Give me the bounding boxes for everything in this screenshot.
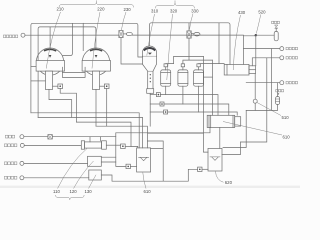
valve 620 in	[198, 167, 208, 171]
wire header B	[38, 27, 96, 118]
svg-text:610: 610	[283, 135, 291, 140]
wire port R1 line	[243, 48, 279, 50]
port L4	[20, 176, 89, 180]
wire dot down to vessel head	[255, 35, 257, 66]
wire tank1 nozzle drop	[49, 27, 51, 49]
wire tank2 feed drop	[82, 23, 84, 50]
label port R1	[286, 47, 298, 50]
svg-text:320: 320	[170, 9, 178, 14]
label port L4	[4, 176, 17, 179]
wire valve330 vertical	[188, 23, 190, 60]
valve cyclone V3	[150, 110, 237, 115]
label port R2	[286, 57, 298, 60]
port L2	[20, 143, 81, 147]
wire cylinder bottoms	[165, 86, 167, 94]
valve 110 out	[106, 144, 138, 149]
pump 130	[89, 170, 102, 180]
wire drop 246	[223, 110, 246, 147]
brace over 210-220	[59, 2, 133, 7]
wire leg1 down	[49, 89, 72, 117]
valve cyclone V2	[150, 102, 229, 115]
port R2	[280, 56, 284, 60]
wire valve1 down	[60, 89, 76, 123]
pump 110	[81, 141, 106, 149]
wire 120 out lines	[101, 157, 116, 162]
wire tank1 lower feed	[31, 80, 46, 82]
label trap B	[276, 90, 284, 96]
leader 110	[58, 148, 88, 189]
leader 210	[46, 12, 60, 69]
wire valve230 drop	[121, 38, 143, 65]
leader 610 right	[223, 122, 282, 136]
tank1 spray mark	[49, 55, 52, 58]
label feed inlet	[3, 35, 17, 38]
tank2 dark cap	[91, 49, 102, 50]
valve 230 with handle	[119, 31, 132, 38]
condenser cylinder 2	[178, 64, 188, 86]
label port L3	[4, 162, 17, 165]
wire right riser 266	[241, 58, 267, 142]
wire header A	[31, 23, 143, 113]
wire vessel head down	[254, 74, 256, 111]
condenser cylinder 3	[194, 64, 204, 86]
left bus wires	[31, 113, 139, 148]
leader 620	[216, 171, 224, 182]
leader lines	[46, 0, 282, 199]
brace over 310-330	[155, 3, 194, 8]
wire valve2 down	[106, 89, 108, 127]
wire tank1 vapor elbow	[63, 23, 73, 55]
leader 510	[257, 103, 281, 116]
port L1	[20, 135, 48, 139]
wire leg2 down	[95, 89, 97, 126]
valve cyclone V1	[150, 93, 218, 116]
wire vertical 212	[211, 60, 213, 115]
pump circle 510	[253, 99, 257, 103]
wire HX return	[116, 128, 210, 133]
underbrace 110-120	[56, 195, 85, 200]
wire port R2 line	[252, 58, 279, 66]
leader 120	[74, 161, 94, 189]
wire cylinder top headers	[166, 56, 204, 63]
wire tank620 right loop	[222, 142, 241, 154]
wire dot to trap A	[256, 34, 274, 36]
wire cyclone top line	[150, 23, 231, 65]
cyclone 310	[143, 46, 157, 93]
horizontal vessel 430	[224, 64, 255, 75]
wire long vertical 203	[203, 56, 208, 152]
svg-text:430: 430	[238, 10, 246, 15]
leader 310	[147, 14, 155, 56]
valve tank1 drain	[53, 84, 63, 89]
svg-text:110: 110	[53, 189, 60, 194]
pump 120	[88, 156, 102, 166]
wire port R3 line	[246, 82, 280, 84]
label port L2	[4, 144, 17, 147]
leader 610 bottom	[143, 173, 146, 189]
leader 520	[256, 15, 261, 34]
tank 620	[208, 148, 222, 171]
wire HX bottom to tank620	[219, 128, 221, 149]
wire tank1 rect feed	[31, 66, 36, 68]
wire return 110.4	[246, 105, 277, 111]
svg-text:130: 130	[85, 189, 93, 194]
svg-text:330: 330	[191, 9, 199, 14]
valve tank2 drain	[100, 84, 109, 89]
text blobs (CJK port labels rendered as glyph boxes)	[3, 21, 297, 179]
svg-text:210: 210	[57, 7, 65, 12]
steam trap A	[274, 25, 278, 41]
evaporator tank1 210	[36, 48, 64, 75]
port R1	[280, 47, 284, 51]
svg-text:310: 310	[151, 9, 159, 14]
valve L1	[48, 135, 116, 142]
wire mid link	[148, 132, 203, 134]
wire L-line to bottom bus	[147, 141, 163, 181]
svg-text:610: 610	[144, 189, 152, 194]
svg-text:510: 510	[282, 115, 290, 120]
port L3	[20, 161, 88, 165]
wire cyclone downcomer	[149, 93, 151, 126]
valve 610 in	[126, 164, 137, 168]
valve 330 with handle	[187, 31, 200, 38]
wire inter-tank transfer loop	[62, 67, 85, 77]
scan artifact band	[0, 186, 300, 188]
leader 320	[167, 14, 173, 80]
port feed inlet (left top)	[21, 33, 119, 37]
wire valve230 out	[132, 34, 243, 36]
heat exchanger 610r horizontal	[207, 115, 241, 127]
svg-text:620: 620	[225, 180, 233, 185]
steam trap B	[276, 83, 280, 105]
leader 330	[190, 14, 194, 30]
wire vessel top entry 2	[243, 36, 255, 65]
leader 230	[121, 12, 126, 30]
tank2 leg	[92, 71, 99, 89]
leader 220	[92, 12, 100, 69]
wire cyl3 outlet	[204, 76, 213, 78]
svg-text:230: 230	[124, 7, 132, 12]
port R3	[280, 81, 284, 85]
label port R3	[286, 81, 298, 84]
wire right riser 271	[271, 49, 273, 111]
tank2 spray mark	[95, 55, 98, 58]
svg-text:220: 220	[97, 7, 105, 12]
evaporator tank2 220	[82, 48, 110, 75]
tank1 leg	[45, 71, 52, 89]
tank 610	[137, 148, 151, 172]
condenser cylinder 1	[161, 64, 171, 86]
tank1 dark cap	[45, 49, 56, 50]
label port L1	[5, 135, 14, 138]
node junction dot	[255, 34, 257, 36]
leader 430	[233, 15, 240, 70]
svg-text:120: 120	[70, 189, 78, 194]
wire riser 219	[218, 23, 220, 64]
wire 130 out to 620	[101, 169, 197, 181]
leader 130	[89, 175, 97, 189]
svg-text:520: 520	[258, 10, 266, 15]
label trap A	[272, 21, 280, 23]
